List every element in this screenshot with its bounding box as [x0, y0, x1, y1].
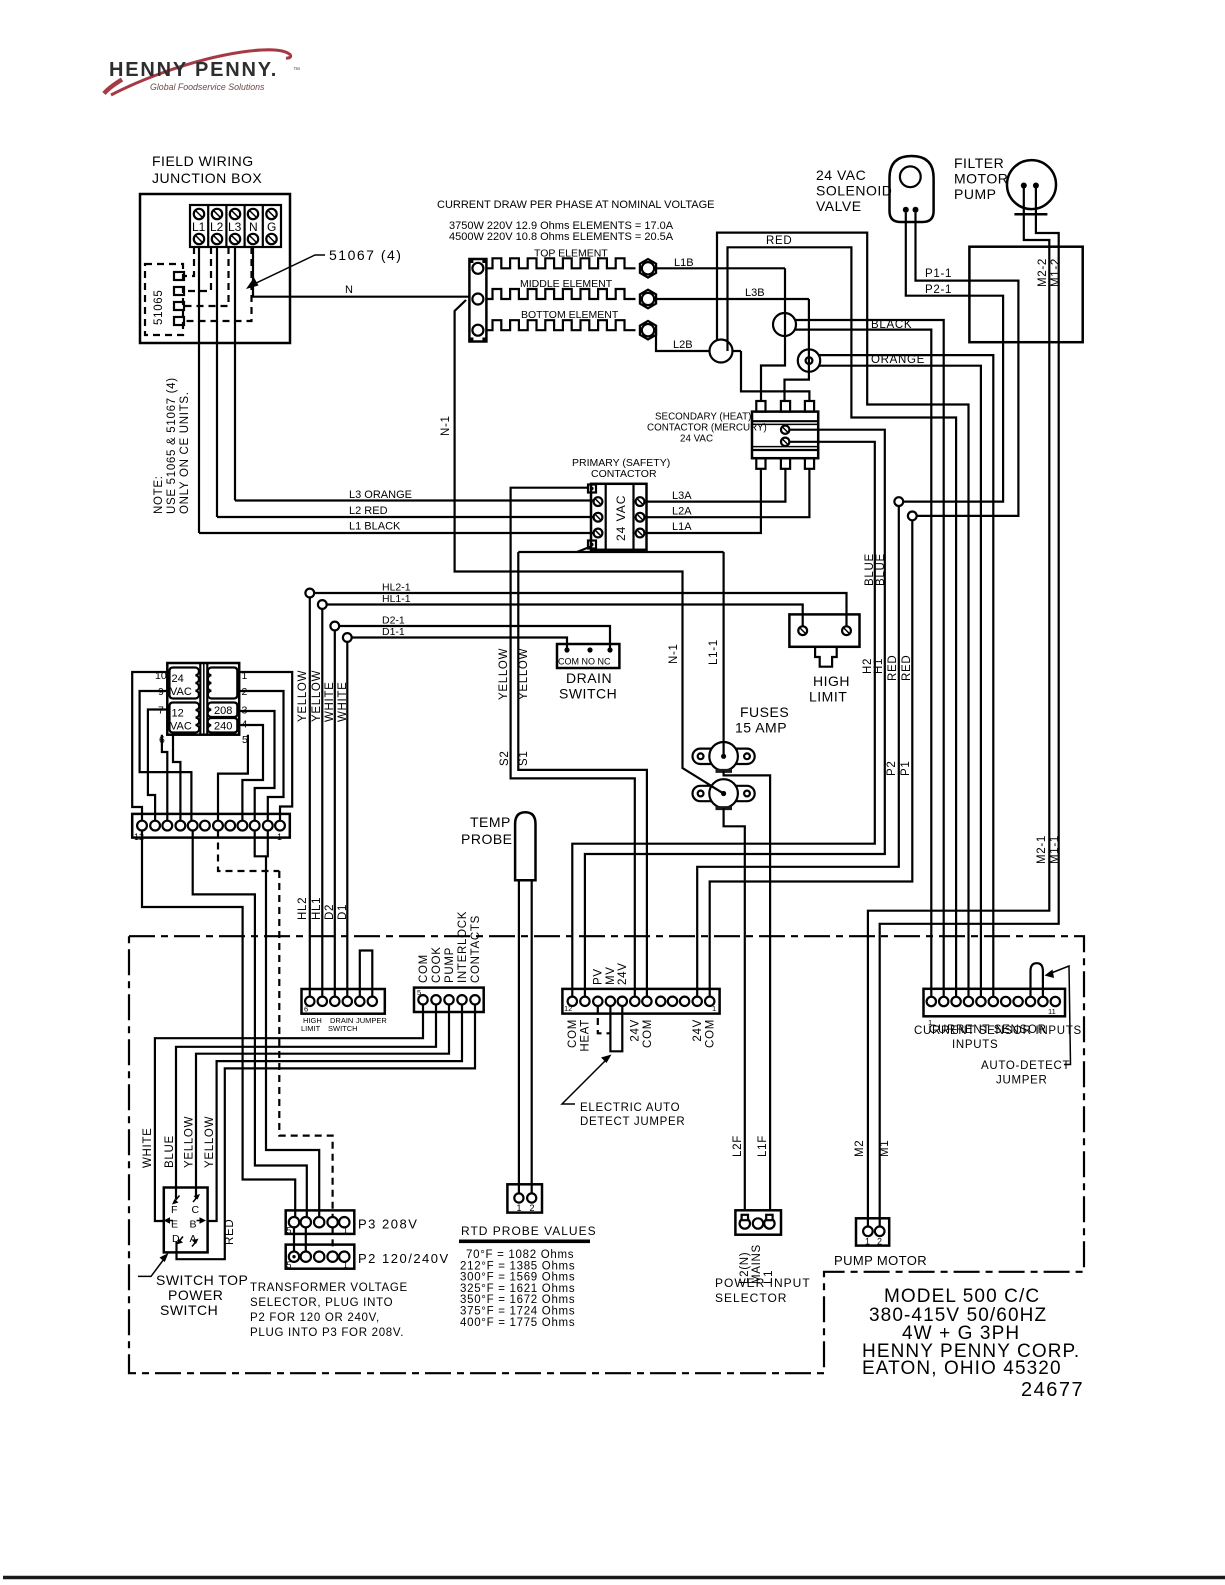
wire L3 orange input [235, 499, 594, 501]
probe wires [518, 880, 520, 1193]
wire L1-1 to fuse 1 [722, 552, 724, 756]
wire N-1 branch [455, 300, 724, 794]
wire HL1 down to strip [321, 609, 323, 997]
svg-text:SELECTOR, PLUG INTO: SELECTOR, PLUG INTO [250, 1297, 393, 1309]
winding 12VAC [170, 703, 200, 733]
logo swoosh [111, 50, 291, 95]
wire S1 yellow bus from bottom pin [518, 551, 723, 553]
svg-text:L2F: L2F [732, 1135, 744, 1157]
svg-text:51067 (4): 51067 (4) [329, 247, 402, 263]
svg-text:P1-1: P1-1 [925, 268, 952, 280]
wire pin3 to TB1-3 [237, 711, 274, 821]
switch box [164, 1188, 208, 1253]
svg-text:HL1-1: HL1-1 [382, 593, 411, 605]
svg-text:PROBE: PROBE [461, 831, 513, 847]
wire M2-2 motor to pump motor 1 [868, 188, 1049, 1227]
wire L1-1 into fuse1 center [722, 743, 724, 757]
svg-text:P2 FOR 120 OR 240V,: P2 FOR 120 OR 240V, [250, 1312, 380, 1324]
svg-text:PLUG INTO P3 FOR 208V.: PLUG INTO P3 FOR 208V. [250, 1327, 404, 1339]
svg-text:N-1: N-1 [668, 643, 680, 664]
svg-text:SWITCH: SWITCH [559, 686, 617, 702]
svg-text:325°F = 1621 Ohms: 325°F = 1621 Ohms [460, 1283, 575, 1295]
svg-text:5: 5 [287, 1260, 292, 1270]
node junction P2 [894, 497, 903, 506]
svg-text:H1: H1 [873, 658, 885, 674]
svg-text:LIMIT: LIMIT [301, 1024, 321, 1033]
solenoid valve body [890, 156, 934, 222]
wire L3 down [234, 247, 236, 501]
svg-text:L3B: L3B [745, 287, 765, 299]
svg-text:ONLY ON CE UNITS.: ONLY ON CE UNITS. [179, 391, 191, 514]
svg-text:Global Foodservice Solutions: Global Foodservice Solutions [150, 82, 265, 92]
svg-text:CURRENT DRAW PER PHASE AT NOMI: CURRENT DRAW PER PHASE AT NOMINAL VOLTAG… [437, 199, 715, 211]
wire D1 down to strip [346, 642, 348, 997]
wire D2 down to strip [334, 630, 336, 996]
svg-text:D1-1: D1-1 [382, 626, 405, 638]
wire TB1-10 down to P3-3 [266, 856, 319, 1217]
svg-text:PUMP: PUMP [954, 186, 996, 202]
svg-text:™: ™ [293, 67, 300, 74]
svg-text:M1-2: M1-2 [1050, 258, 1062, 287]
resistor top element [487, 258, 636, 268]
svg-text:YELLOW: YELLOW [518, 648, 530, 700]
dashed wires terminals to 51065 pins [184, 247, 194, 276]
CT sensor circle on L1B [773, 313, 796, 336]
jumper electric auto detect (solid) [610, 1006, 622, 1051]
node HL2-1 [305, 589, 314, 598]
contactor U1 right screws [636, 497, 645, 506]
svg-text:HL1: HL1 [311, 897, 323, 920]
wire WHITE from COM to switch E [155, 1005, 423, 1222]
svg-text:LIMIT: LIMIT [809, 689, 847, 705]
wire L1A to mercury pin1 [644, 469, 761, 533]
wire L3B drop through toroid to pin2 [785, 299, 809, 401]
svg-text:SELECTOR: SELECTOR [715, 1291, 787, 1305]
wire BLACK pair from L1B sensor [795, 320, 944, 997]
svg-text:L2: L2 [210, 220, 224, 234]
wire RED/P1 junction down to control strip c12 [710, 520, 913, 996]
svg-text:2: 2 [530, 1203, 535, 1213]
CT toroid sensor on L3B [798, 349, 820, 371]
page bottom border [3, 1576, 1225, 1580]
svg-text:POWER INPUT: POWER INPUT [715, 1276, 811, 1290]
svg-text:M1-1: M1-1 [1049, 835, 1061, 864]
svg-text:AUTO-DETECT: AUTO-DETECT [981, 1060, 1070, 1072]
wire H1 coil to control strip c2 [585, 430, 885, 997]
svg-text:VAC: VAC [170, 686, 192, 698]
wire BLUE from COOK to switch F [176, 1005, 436, 1200]
winding 240 [208, 718, 238, 733]
wire HL1-1 to high limit left screw [327, 605, 803, 627]
winding 208 [208, 703, 238, 718]
wire L2A to mercury pin3 [644, 469, 809, 517]
wire M1-2 motor to pump motor 2 [880, 188, 1059, 1227]
svg-text:M2-1: M2-1 [1036, 835, 1048, 864]
svg-text:2: 2 [877, 1237, 882, 1247]
label electric auto detect jumper [562, 1060, 606, 1104]
wire pin9 to TB1-8 [140, 691, 192, 821]
wire L1B [655, 267, 785, 269]
svg-text:TRANSFORMER VOLTAGE: TRANSFORMER VOLTAGE [250, 1282, 408, 1294]
resistor middle element [487, 289, 636, 299]
svg-text:SOLENOID: SOLENOID [816, 183, 892, 199]
wire N-1 into fuse2 center [707, 783, 724, 793]
svg-text:S2: S2 [499, 751, 511, 766]
wire P3-4 to P2-4 [305, 1227, 307, 1251]
wire P3-2 to P2-2 dashed [332, 1227, 334, 1251]
svg-text:DETECT JUMPER: DETECT JUMPER [580, 1116, 685, 1128]
wire pin2 to TB1-2 [239, 691, 283, 821]
wire D2-1 to drain switch NC [339, 626, 610, 650]
svg-text:FIELD WIRING: FIELD WIRING [152, 153, 254, 169]
svg-text:24 VAC: 24 VAC [816, 167, 866, 183]
svg-text:COM: COM [705, 1019, 717, 1048]
transformer core [199, 663, 201, 735]
svg-text:INPUTS: INPUTS [952, 1039, 998, 1051]
svg-text:CURRENT SENSOR: CURRENT SENSOR [929, 1024, 1047, 1036]
svg-text:RED: RED [224, 1219, 236, 1245]
wire pin1 to TB1-1 [239, 672, 292, 821]
svg-text:POWER: POWER [168, 1287, 223, 1303]
svg-text:375°F = 1724 Ohms: 375°F = 1724 Ohms [460, 1306, 575, 1318]
svg-text:P3 208V: P3 208V [358, 1217, 418, 1232]
probe connector box [507, 1184, 542, 1212]
wire pin10 to TB1-12 [132, 672, 167, 821]
connector 51065 dashed box [145, 264, 183, 335]
svg-text:15 AMP: 15 AMP [735, 720, 787, 736]
svg-text:SECONDARY (HEAT): SECONDARY (HEAT) [655, 412, 751, 423]
svg-text:24677: 24677 [1021, 1379, 1084, 1401]
wire TB1-9 stub [173, 735, 180, 821]
connector P2 [286, 1245, 355, 1269]
svg-text:BLACK: BLACK [871, 319, 912, 331]
fuse F1 [693, 742, 755, 771]
svg-text:240: 240 [214, 721, 232, 733]
svg-text:HENNY PENNY.: HENNY PENNY. [109, 59, 278, 81]
svg-text:L3A: L3A [672, 490, 692, 502]
svg-text:M2-2: M2-2 [1037, 258, 1049, 287]
svg-text:COM: COM [418, 954, 430, 983]
svg-text:12: 12 [172, 708, 184, 720]
svg-text:350°F = 1672 Ohms: 350°F = 1672 Ohms [460, 1294, 575, 1306]
probe bulb [515, 812, 535, 880]
svg-text:M2: M2 [854, 1140, 866, 1157]
svg-text:24: 24 [172, 673, 184, 685]
svg-text:INTERLOCK: INTERLOCK [457, 911, 469, 983]
svg-text:PUMP: PUMP [444, 947, 456, 983]
svg-text:1: 1 [343, 1260, 348, 1270]
wire L1 down [198, 247, 200, 533]
svg-text:YELLOW: YELLOW [297, 670, 309, 722]
svg-text:L3 ORANGE: L3 ORANGE [349, 489, 412, 501]
wire YELLOW from PUMP to switch C [196, 1005, 449, 1200]
jumper loop TB2 5-6 [360, 951, 373, 998]
svg-text:MV: MV [605, 966, 617, 985]
wire S2 yellow from top pin to control strip c6 [511, 488, 635, 997]
wire RED/P2 junction down to control strip c11 [697, 506, 899, 997]
svg-text:B: B [190, 1219, 197, 1231]
svg-text:TEMP: TEMP [470, 814, 511, 830]
contactor U2 bottom pins [756, 458, 765, 469]
jumper auto-detect on TB5 [1031, 963, 1043, 997]
svg-text:24V: 24V [617, 962, 629, 985]
winding secondary top [208, 668, 237, 699]
svg-text:HL2-1: HL2-1 [382, 582, 411, 594]
wire TB1-8 down to P3-4 [193, 831, 307, 1218]
contactor U2 body [752, 412, 818, 459]
fuse F2 [693, 779, 755, 808]
svg-text:HEAT: HEAT [580, 1019, 592, 1052]
svg-text:P2-1: P2-1 [925, 284, 952, 296]
svg-text:PUMP MOTOR: PUMP MOTOR [834, 1253, 927, 1268]
svg-text:11: 11 [1048, 1007, 1056, 1016]
wire pin6 to TB1-10 [162, 735, 167, 821]
svg-text:YELLOW: YELLOW [184, 1116, 196, 1168]
svg-text:JUMPER: JUMPER [356, 1016, 387, 1025]
svg-text:P2: P2 [886, 761, 898, 776]
svg-text:COM: COM [642, 1019, 654, 1048]
svg-text:L2B: L2B [673, 339, 693, 351]
svg-text:6: 6 [304, 1005, 308, 1014]
terminal screws top row [194, 209, 277, 219]
node HL1-1 [318, 600, 327, 609]
svg-text:N: N [345, 284, 353, 296]
wire P2-1 from solenoid to junction [903, 213, 1003, 502]
svg-text:M1: M1 [879, 1140, 891, 1157]
svg-text:300°F = 1569 Ohms: 300°F = 1569 Ohms [460, 1272, 575, 1284]
svg-text:FUSES: FUSES [740, 704, 789, 720]
relay pass-through box [969, 247, 1082, 343]
label switch top power switch with arrow [138, 1257, 166, 1276]
wire HL2-1 to high limit right screw [314, 593, 846, 627]
svg-text:S1: S1 [518, 751, 530, 766]
wire fuse1 out L1F [724, 771, 771, 1210]
wire pin7 to TB1-11 [148, 710, 167, 821]
svg-text:JUNCTION BOX: JUNCTION BOX [152, 170, 262, 186]
wire fuse2 out L2F [724, 808, 745, 1210]
wire D1-1 to drain switch COM [352, 638, 567, 651]
svg-text:1: 1 [712, 1004, 716, 1013]
wire YELLOW from INTERLOCK to switch B [208, 1005, 462, 1222]
svg-text:D2: D2 [324, 904, 336, 920]
svg-text:RED: RED [887, 655, 899, 681]
svg-text:BLUE: BLUE [164, 1135, 176, 1168]
switch arrows [174, 1196, 180, 1203]
terminal screws bottom row [194, 234, 277, 244]
svg-text:L1: L1 [192, 220, 206, 234]
svg-text:EATON, OHIO 45320: EATON, OHIO 45320 [862, 1358, 1062, 1379]
wire HL2 down to strip [309, 597, 311, 996]
contactor U1 left screws [594, 497, 603, 506]
svg-text:FILTER: FILTER [954, 155, 1004, 171]
svg-text:COM NO NC: COM NO NC [558, 657, 611, 667]
svg-text:P1: P1 [900, 761, 912, 776]
wire N to elements [253, 247, 469, 297]
svg-text:VAC: VAC [170, 721, 192, 733]
svg-text:5: 5 [417, 988, 421, 997]
svg-text:L3: L3 [228, 220, 242, 234]
svg-text:12: 12 [564, 1004, 572, 1013]
svg-text:WHITE: WHITE [324, 681, 336, 722]
svg-text:SWITCH: SWITCH [160, 1302, 218, 1318]
svg-text:JUMPER: JUMPER [996, 1075, 1047, 1087]
resistor bottom element [487, 320, 636, 330]
svg-text:4500W 220V 10.8 Ohms ELEMENTS: 4500W 220V 10.8 Ohms ELEMENTS = 20.5A [449, 231, 674, 243]
connector P3 [286, 1210, 355, 1234]
svg-text:51065: 51065 [153, 290, 165, 325]
wire L1B drop to contactor pin1 [761, 268, 785, 401]
svg-text:N-1: N-1 [440, 415, 452, 436]
wire P1-1 from solenoid to junction [916, 213, 1019, 516]
node D2-1 [330, 622, 339, 631]
svg-text:24 VAC: 24 VAC [614, 495, 628, 541]
svg-text:F: F [171, 1204, 177, 1216]
wire pin4 to TB1-4 [237, 725, 263, 821]
svg-text:YELLOW: YELLOW [311, 670, 323, 722]
terminal strip L1 L2 L3 N G [190, 205, 281, 247]
wire TB1-6 dashed to P3-2 [218, 831, 279, 872]
svg-text:RED: RED [766, 235, 792, 247]
svg-text:P2 120/240V: P2 120/240V [358, 1251, 450, 1266]
wire L3A to mercury pin2 [644, 469, 785, 502]
svg-text:MOTOR: MOTOR [954, 171, 1008, 187]
node D1-1 [343, 633, 352, 642]
junction box outline [140, 194, 290, 343]
svg-text:L1A: L1A [672, 521, 692, 533]
svg-text:1: 1 [343, 1226, 348, 1236]
svg-text:COOK: COOK [431, 946, 443, 983]
svg-text:YELLOW: YELLOW [498, 648, 510, 700]
svg-text:24 VAC: 24 VAC [680, 434, 713, 445]
element mounting plate [469, 259, 486, 342]
svg-text:C: C [192, 1204, 200, 1216]
svg-text:ORANGE: ORANGE [871, 354, 925, 366]
terminal strip TB1 (12) [132, 814, 290, 838]
svg-text:VALVE: VALVE [816, 198, 862, 214]
svg-text:5: 5 [287, 1226, 292, 1236]
svg-text:1: 1 [517, 1203, 522, 1213]
svg-text:L2A: L2A [672, 506, 692, 518]
svg-text:WHITE: WHITE [142, 1127, 154, 1168]
wire L2 red input [217, 516, 594, 518]
connector 51065 pins [174, 272, 184, 280]
jumper TB1 9-10 below strip [255, 831, 268, 857]
svg-text:G: G [267, 220, 276, 234]
svg-text:MODEL 500 C/C: MODEL 500 C/C [884, 1286, 1040, 1307]
CT sensor circle on L2B [710, 340, 733, 363]
wire H2 coil to control strip c1 [572, 442, 875, 997]
motor circle [1007, 160, 1056, 209]
wire L1 black input [199, 532, 594, 534]
jumper alt (dashed) [598, 1006, 611, 1033]
svg-text:D1: D1 [337, 904, 349, 920]
svg-text:212°F = 1385 Ohms: 212°F = 1385 Ohms [460, 1260, 575, 1272]
svg-text:WHITE: WHITE [337, 681, 349, 722]
svg-text:ELECTRIC AUTO: ELECTRIC AUTO [580, 1102, 680, 1114]
svg-text:24V: 24V [630, 1019, 642, 1042]
svg-text:1: 1 [865, 1237, 870, 1247]
svg-text:NOTE:: NOTE: [153, 475, 165, 514]
svg-text:L1B: L1B [674, 257, 694, 269]
wire L2B [655, 330, 741, 351]
svg-text:N: N [249, 220, 258, 234]
svg-text:COM: COM [567, 1019, 579, 1048]
svg-text:RTD PROBE VALUES: RTD PROBE VALUES [461, 1224, 597, 1238]
wire RED net from L2B sensor to current sensor strip c4 [717, 233, 969, 997]
wire L2 down [216, 247, 218, 517]
contactor U1 corner pins [588, 485, 596, 493]
svg-text:BLUE: BLUE [875, 553, 887, 586]
svg-text:YELLOW: YELLOW [204, 1116, 216, 1168]
wire P3-5 to P2-5 [293, 1227, 295, 1251]
wire ORANGE pair from L3B toroid [820, 355, 994, 997]
svg-text:USE 51065 & 51067 (4): USE 51065 & 51067 (4) [166, 377, 178, 514]
svg-text:CONTACTS: CONTACTS [470, 915, 482, 983]
svg-text:SWITCH: SWITCH [328, 1024, 358, 1033]
svg-text:400°F = 1775 Ohms: 400°F = 1775 Ohms [460, 1317, 575, 1329]
wire L3B [655, 298, 809, 300]
wire RED from CONTACTS to switch D [177, 1005, 476, 1260]
node junction P1 [908, 512, 917, 521]
svg-text:HL2: HL2 [297, 897, 309, 920]
svg-text:70°F = 1082 Ohms: 70°F = 1082 Ohms [466, 1249, 574, 1261]
transformer body [167, 663, 239, 735]
svg-text:DRAIN: DRAIN [566, 670, 612, 686]
svg-text:RED: RED [901, 655, 913, 681]
wire L2B to contactor pin3 [741, 351, 809, 401]
winding 24VAC [170, 668, 199, 699]
contactor U1 body [591, 484, 647, 550]
svg-text:D2-1: D2-1 [382, 615, 405, 627]
svg-text:1: 1 [277, 832, 282, 842]
wire TB1-12 down to P3-5 [142, 831, 295, 1218]
svg-text:L1-1: L1-1 [708, 639, 720, 665]
contactor U2 top pins [756, 401, 765, 412]
svg-text:HIGH: HIGH [813, 673, 850, 689]
svg-text:PV: PV [593, 968, 605, 985]
svg-text:24V: 24V [692, 1019, 704, 1042]
svg-text:208: 208 [214, 705, 232, 717]
svg-text:L1F: L1F [757, 1135, 769, 1157]
wire pin5 to TB1-6 [218, 735, 248, 821]
svg-text:CONTACTOR (MERCURY): CONTACTOR (MERCURY) [647, 423, 767, 434]
wire second tap from L2B to strip c3 [728, 247, 957, 997]
svg-text:SWITCH TOP: SWITCH TOP [156, 1272, 248, 1288]
svg-text:L1 BLACK: L1 BLACK [349, 521, 401, 533]
svg-text:CONTACTOR: CONTACTOR [591, 468, 657, 480]
contactor U2 coil screws [781, 426, 789, 434]
svg-text:L2 RED: L2 RED [349, 505, 388, 517]
